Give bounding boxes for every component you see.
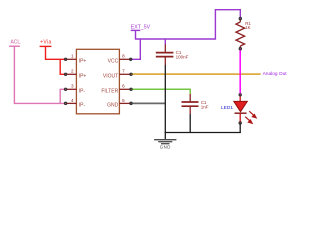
svg-text:5: 5 <box>122 98 125 103</box>
ground <box>154 140 176 144</box>
pin 5 stub <box>119 102 131 104</box>
wire EXT_5V rail run <box>136 10 241 39</box>
svg-text:1: 1 <box>71 54 74 59</box>
svg-text:1nF: 1nF <box>201 105 209 110</box>
wire GND pin5 gray <box>131 102 165 104</box>
svg-text:4: 4 <box>71 98 74 103</box>
pin 7 stub <box>119 73 131 75</box>
R1 value label <box>245 21 251 30</box>
capacitor C2 <box>182 94 199 114</box>
pin 4 stub <box>66 102 77 104</box>
LED1 light arrows <box>245 111 256 123</box>
LED LED1 <box>234 95 248 123</box>
net label +Via <box>40 40 52 47</box>
svg-text:VCC: VCC <box>108 59 119 65</box>
wire +Via run to pin 1 <box>46 46 66 59</box>
junction dot pin 2 <box>64 73 66 75</box>
wire ACL branch up to pin 3 <box>60 89 65 103</box>
svg-text:2: 2 <box>71 69 74 74</box>
junction dot pin 7 <box>130 73 132 75</box>
wire GND vertical from C1 <box>164 65 166 140</box>
svg-text:Analog Out: Analog Out <box>263 71 288 77</box>
pin 8 stub <box>119 58 131 60</box>
svg-text:GND: GND <box>107 103 119 109</box>
svg-text:+Via: +Via <box>40 40 51 46</box>
pin 1 stub <box>66 58 77 60</box>
wire FILTER green <box>131 89 190 94</box>
svg-text:FILTER: FILTER <box>101 89 118 95</box>
svg-text:7: 7 <box>122 69 125 74</box>
junction dot pin 6 <box>130 88 132 90</box>
svg-text:6: 6 <box>122 84 125 89</box>
net label EXT_5V <box>131 25 151 31</box>
junction dot pin 8 <box>130 58 132 60</box>
wire VCC tap <box>131 39 141 59</box>
C1 value label <box>176 50 189 60</box>
capacitor C1 <box>156 44 174 65</box>
junction dot LED1 top <box>239 94 241 96</box>
junction dot pin 5 <box>130 102 132 104</box>
wire magenta R1 to LED1 <box>239 49 241 95</box>
svg-text:100nF: 100nF <box>176 55 189 60</box>
pin 2 stub <box>66 73 77 75</box>
C2 value label <box>201 100 209 110</box>
svg-text:IP-: IP- <box>79 89 86 95</box>
wire ACL run to pin 4 <box>14 46 65 103</box>
wire VIOUT orange <box>131 73 261 75</box>
svg-text:IP+: IP+ <box>79 74 87 80</box>
junction dot R1 bottom <box>239 48 241 50</box>
junction dot LED1 bottom <box>239 122 241 124</box>
svg-text:VIOUT: VIOUT <box>103 74 118 80</box>
wire C2 to ground rail <box>189 114 191 133</box>
svg-text:1K: 1K <box>245 25 250 30</box>
IC U1 body <box>76 49 119 114</box>
junction dot pin 4 <box>64 102 66 104</box>
junction dot pin 1 <box>64 58 66 60</box>
wire C1 tap <box>164 39 166 45</box>
wire LED1 to ground rail <box>239 123 241 133</box>
svg-text:IP-: IP- <box>79 103 86 109</box>
svg-text:8: 8 <box>122 54 125 59</box>
svg-text:3: 3 <box>71 84 74 89</box>
pin 3 stub <box>66 88 77 90</box>
net label ACL <box>9 40 21 47</box>
ground rail bottom <box>165 132 241 134</box>
resistor R1 <box>236 19 245 49</box>
junction dot pin 3 <box>64 88 66 90</box>
svg-text:ACL.: ACL. <box>10 40 21 46</box>
pin 6 stub <box>119 88 131 90</box>
svg-text:IP+: IP+ <box>79 59 87 65</box>
svg-text:GND: GND <box>160 144 171 149</box>
junction dot R1 top <box>239 17 241 19</box>
svg-text:LED1: LED1 <box>221 105 233 111</box>
wire +Via branch down to pin 2 <box>60 59 65 74</box>
